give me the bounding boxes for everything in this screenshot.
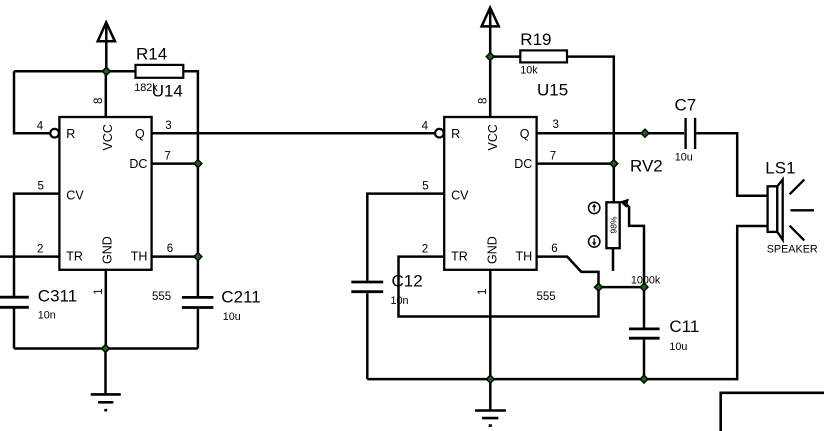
svg-text:2: 2 <box>37 244 43 256</box>
svg-text:1000k: 1000k <box>631 274 661 286</box>
svg-text:4: 4 <box>37 121 44 133</box>
pin 4 bubble U15 <box>435 129 444 138</box>
svg-text:3: 3 <box>553 119 559 131</box>
capacitor C12 <box>351 282 383 292</box>
svg-text:TH: TH <box>516 249 533 263</box>
svg-text:555: 555 <box>152 291 171 303</box>
svg-text:GND: GND <box>485 236 499 264</box>
svg-text:TR: TR <box>66 249 83 263</box>
node VCC junction left <box>102 67 110 75</box>
wire junction to 1000k node <box>599 286 645 289</box>
svg-text:5: 5 <box>38 181 44 193</box>
svg-text:6: 6 <box>167 243 173 255</box>
wire DC7 stub U14 <box>152 162 198 165</box>
svg-text:Q: Q <box>520 127 530 141</box>
svg-text:R: R <box>66 127 75 141</box>
RV2 bottom stub <box>612 248 615 271</box>
svg-text:C12: C12 <box>392 271 423 290</box>
speaker LS1 <box>768 180 814 241</box>
svg-text:TR: TR <box>451 249 468 263</box>
svg-text:RV2: RV2 <box>630 157 663 176</box>
node Q-C7 junction <box>641 129 649 137</box>
svg-text:1: 1 <box>93 288 105 294</box>
svg-text:CV: CV <box>451 188 469 202</box>
svg-text:SPEAKER: SPEAKER <box>767 244 818 256</box>
wire C11 bottom stem <box>643 340 646 380</box>
wire C311 bottom <box>13 309 16 349</box>
wire bottom rail right <box>367 226 767 379</box>
wire DC7 stub U15 <box>537 162 614 165</box>
svg-text:VCC: VCC <box>101 124 115 150</box>
svg-text:5: 5 <box>422 181 428 193</box>
RV2 down-adjust circle <box>589 236 600 247</box>
partial box bottom-right <box>721 393 824 431</box>
svg-text:2: 2 <box>422 244 428 256</box>
wire Q3 U15 to C7 <box>537 132 685 135</box>
node DC junction U15 <box>610 160 618 168</box>
wire U15 VCC stem <box>489 57 492 117</box>
svg-text:10u: 10u <box>675 151 693 163</box>
svg-text:10u: 10u <box>223 311 241 323</box>
RV2 up-adjust circle <box>589 202 600 213</box>
svg-text:3: 3 <box>165 120 171 132</box>
wire bottom rail left <box>14 347 198 350</box>
op-amp U14 (555 timer) body <box>59 117 151 270</box>
svg-text:DC: DC <box>129 157 147 171</box>
node GND rail junction right <box>486 375 494 383</box>
wire TH6 stub U14 <box>152 255 198 258</box>
wire C211 bottom stem <box>197 309 200 349</box>
wire TR from edge <box>0 255 59 258</box>
svg-text:R19: R19 <box>520 30 551 49</box>
svg-text:8: 8 <box>478 98 490 104</box>
svg-text:Q: Q <box>135 127 145 141</box>
wire Q3 U14 to U15 <box>152 132 436 135</box>
node TH branch junction <box>595 283 603 291</box>
svg-text:R14: R14 <box>136 45 167 64</box>
svg-text:LS1: LS1 <box>765 159 795 178</box>
svg-text:10u: 10u <box>669 341 687 353</box>
resistor R14 <box>136 65 184 78</box>
capacitor C311 <box>0 297 29 307</box>
RV2 wiper arrowhead <box>620 199 629 208</box>
wire VCC rail right <box>490 55 520 58</box>
svg-text:6: 6 <box>551 243 557 255</box>
svg-text:4: 4 <box>422 121 429 133</box>
wire pin5 CV to C311 <box>14 194 59 296</box>
node 1000k junction <box>640 283 648 291</box>
svg-text:10k: 10k <box>520 64 538 76</box>
svg-text:7: 7 <box>550 150 556 162</box>
op-amp U15 (555 timer) body <box>444 117 536 270</box>
svg-text:TH: TH <box>131 249 148 263</box>
svg-text:98%: 98% <box>609 216 619 233</box>
wire left vertical to pin4 <box>14 71 50 133</box>
potentiometer RV2 body <box>606 202 619 248</box>
pin 4 bubble U14 <box>50 129 59 138</box>
svg-text:10n: 10n <box>391 295 409 307</box>
RV2 wiper wire <box>625 203 644 287</box>
wire R14 right to rail corner <box>183 71 198 296</box>
node VCC junction right <box>486 53 494 61</box>
wire C7 to speaker top <box>696 133 767 196</box>
svg-text:C211: C211 <box>221 288 260 307</box>
capacitor C11 <box>629 329 660 338</box>
svg-text:CV: CV <box>66 188 84 202</box>
node TH junction U14 <box>194 253 202 261</box>
svg-text:10n: 10n <box>38 309 56 321</box>
svg-text:1: 1 <box>477 289 489 295</box>
wire R19 right rail down to pot <box>567 57 614 203</box>
wire U14 GND stem <box>105 270 108 349</box>
wire U14 VCC stem <box>105 71 108 117</box>
svg-text:U14: U14 <box>152 82 183 101</box>
node DC junction U14 <box>194 160 202 168</box>
wire TH6 diagonal path U15 <box>537 257 599 288</box>
ground (right) <box>475 379 506 426</box>
svg-text:C311: C311 <box>38 286 77 305</box>
svg-text:DC: DC <box>514 157 532 171</box>
wire C12 bottom stem <box>366 293 369 379</box>
wire U15 GND stem <box>489 270 492 379</box>
wire CV5 to C12 <box>367 194 444 281</box>
wire C11 top stem <box>643 287 646 327</box>
wire TH junction down and TR return <box>399 257 599 317</box>
ground (left) <box>91 349 121 411</box>
capacitor C7 <box>686 118 696 149</box>
svg-text:VCC: VCC <box>486 124 500 150</box>
capacitor C211 <box>182 297 214 307</box>
svg-text:C7: C7 <box>675 96 697 115</box>
node ground junction left <box>102 345 110 353</box>
node C11 bottom junction <box>640 375 648 383</box>
power arrow VCC (right) <box>482 8 499 57</box>
resistor R19 <box>520 50 567 62</box>
svg-text:555: 555 <box>537 291 556 303</box>
svg-text:7: 7 <box>164 150 170 162</box>
svg-text:8: 8 <box>93 98 105 104</box>
power arrow VCC (left) <box>98 22 115 71</box>
svg-text:C11: C11 <box>669 317 699 336</box>
wire VCC rail left <box>14 70 136 73</box>
svg-text:GND: GND <box>101 236 115 264</box>
svg-text:U15: U15 <box>537 81 568 100</box>
svg-text:R: R <box>451 127 460 141</box>
